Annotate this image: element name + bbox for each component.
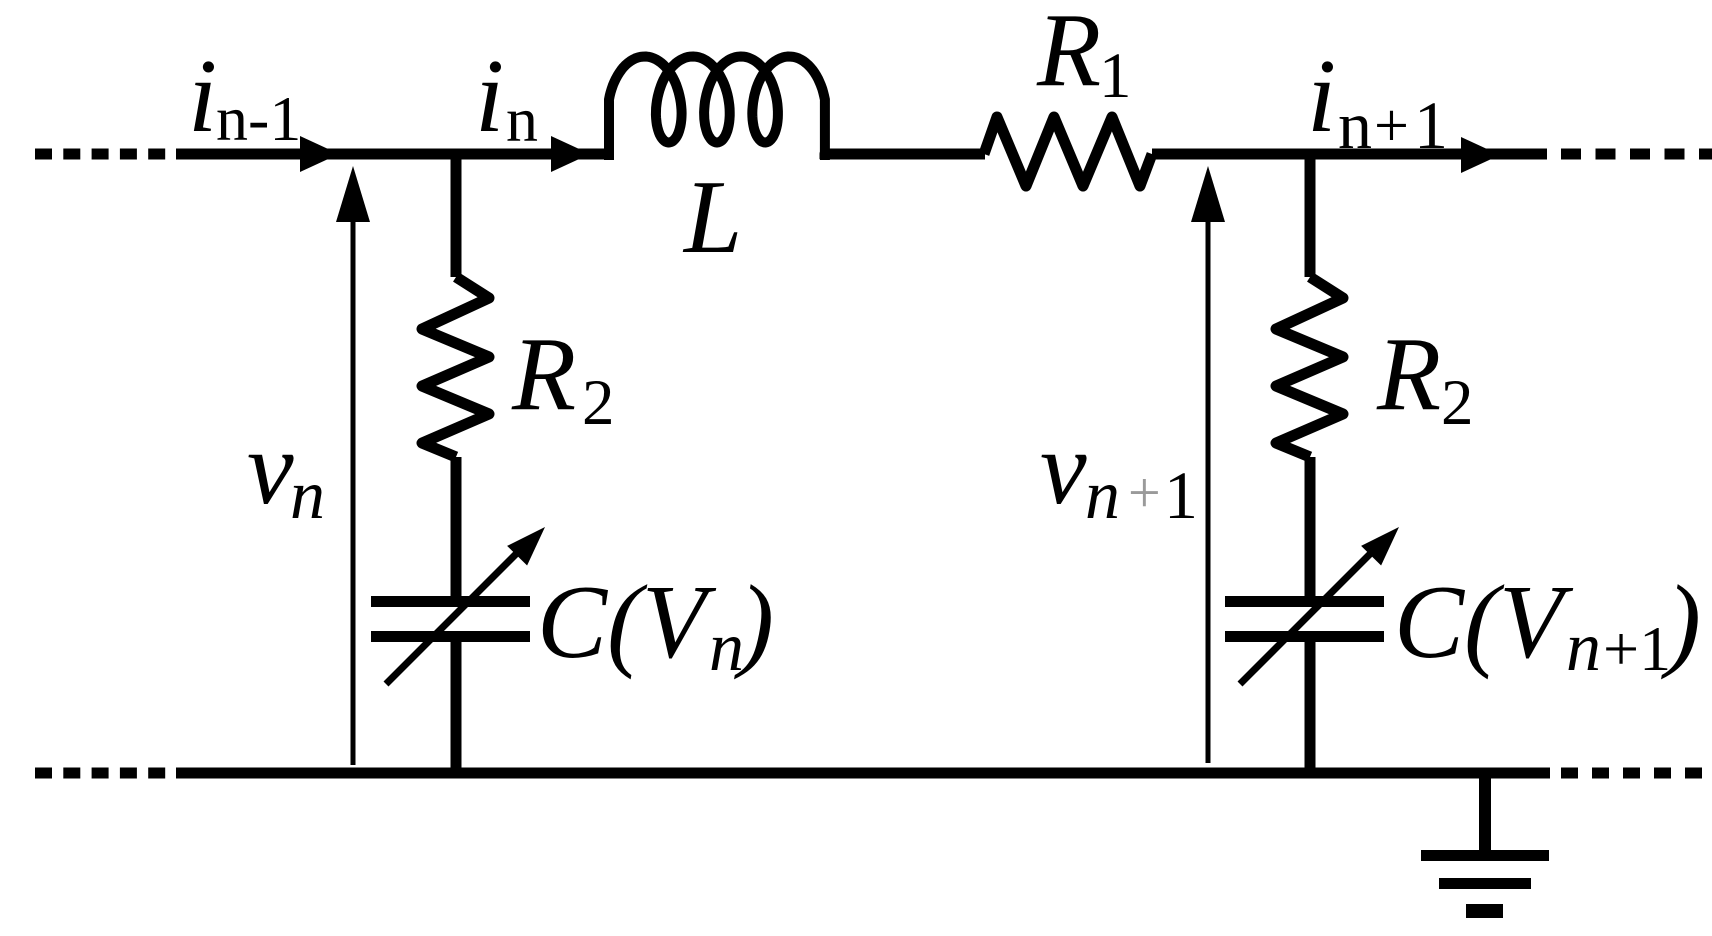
resistor R2 right (1276, 277, 1343, 457)
svg-text:+1: +1 (1603, 613, 1671, 684)
wire top rail dashed left (35, 149, 168, 160)
ground bar 1 (1421, 850, 1549, 861)
wire left branch lower (451, 642, 462, 773)
ground bar 3 (1466, 904, 1503, 918)
wire right branch upper (1305, 149, 1316, 277)
voltage arrow vn+1 (1206, 218, 1211, 763)
arrow head i n+1 (1461, 137, 1500, 173)
svg-text:v: v (1040, 409, 1087, 526)
svg-text:C(V: C(V (1394, 563, 1574, 680)
wire left branch upper (451, 149, 462, 277)
wire from R1 to right node (1152, 149, 1547, 160)
varactor arrow right (1240, 549, 1375, 684)
wire top rail solid (176, 149, 604, 160)
svg-text:): ) (1661, 563, 1701, 680)
inductor L (609, 57, 825, 161)
svg-text:R: R (1036, 0, 1101, 108)
svg-text:n: n (1338, 87, 1372, 163)
capacitor C(Vn) plates (371, 602, 530, 637)
varactor arrow left (386, 549, 521, 684)
svg-text:n: n (1566, 609, 1601, 686)
svg-text:C(V: C(V (537, 563, 717, 680)
resistor R1 (984, 117, 1152, 186)
voltage arrow vn (351, 218, 356, 765)
svg-text:R: R (511, 315, 576, 432)
svg-text:2: 2 (1441, 367, 1474, 439)
wire right branch middle (1305, 457, 1316, 596)
svg-text:R: R (1376, 315, 1441, 432)
svg-text:i: i (475, 37, 504, 154)
wire from inductor to R1 (825, 154, 985, 159)
svg-text:n: n (1085, 457, 1120, 534)
svg-text:2: 2 (582, 367, 615, 439)
wire right branch lower (1305, 642, 1316, 773)
svg-text:n: n (290, 457, 325, 534)
wire top rail dashed right (1561, 149, 1712, 160)
capacitor C(Vn+1) plates (1225, 602, 1384, 637)
wire bottom rail dashed left (35, 768, 168, 779)
svg-text:1: 1 (1099, 40, 1132, 112)
resistor R2 left (422, 277, 489, 457)
wire bottom rail solid (176, 768, 1550, 779)
svg-text:i: i (188, 37, 217, 154)
arrow head i n-1 (300, 136, 339, 172)
ground stub (1479, 773, 1491, 852)
svg-text:+: + (1128, 460, 1161, 525)
arrow head i n (551, 136, 590, 172)
svg-text:+: + (1374, 92, 1409, 160)
svg-text:L: L (682, 158, 742, 275)
svg-text:1: 1 (1414, 87, 1448, 163)
svg-text:n: n (506, 84, 538, 155)
svg-text:v: v (247, 409, 294, 526)
wire left branch middle (451, 457, 462, 596)
svg-text:n-1: n-1 (216, 83, 301, 154)
svg-text:): ) (734, 563, 774, 680)
ground bar 2 (1439, 878, 1531, 889)
wire bottom rail dashed right (1561, 768, 1712, 779)
svg-text:1: 1 (1164, 457, 1198, 533)
svg-text:i: i (1307, 37, 1336, 154)
